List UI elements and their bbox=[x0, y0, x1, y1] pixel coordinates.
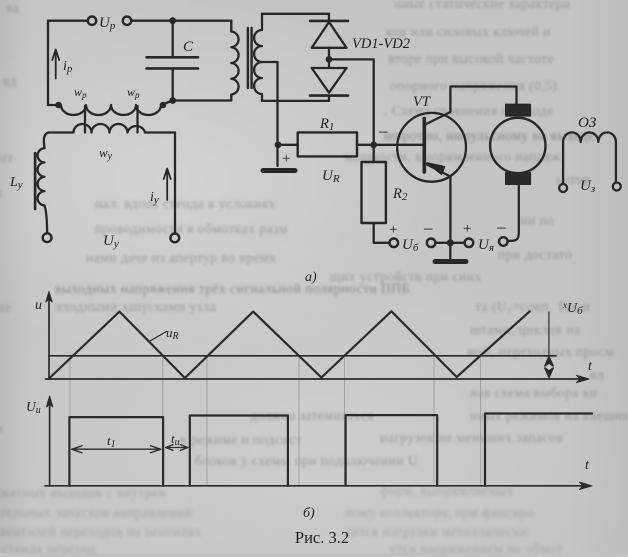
svg-text:VD1-VD2: VD1-VD2 bbox=[352, 36, 410, 52]
svg-text:UR: UR bbox=[322, 168, 340, 185]
transistor VT collector bbox=[424, 87, 450, 126]
svg-text:R1: R1 bbox=[319, 116, 334, 133]
t1 dimension arrows bbox=[72, 446, 161, 453]
svg-text:t1: t1 bbox=[107, 433, 116, 450]
wire Ub minus to center node bbox=[435, 242, 464, 244]
motor brush top bbox=[506, 104, 531, 115]
tu dimension arrows bbox=[166, 445, 188, 451]
field winding O3 bbox=[563, 132, 616, 183]
svg-text:ОЗ: ОЗ bbox=[578, 115, 597, 131]
resistor R1 bbox=[298, 132, 357, 156]
transistor VT base bar bbox=[422, 119, 426, 173]
diode VD1 bbox=[312, 22, 347, 48]
svg-text:Uб: Uб bbox=[402, 237, 419, 254]
transformer secondary winding upper bbox=[254, 14, 262, 62]
terminal circle Ub plus bbox=[390, 239, 399, 248]
svg-text:R2: R2 bbox=[392, 186, 408, 203]
svg-text:+: + bbox=[389, 222, 397, 238]
Ub dimension line bbox=[548, 312, 550, 358]
svg-text:Lу: Lу bbox=[9, 175, 23, 191]
svg-text:iу: iу bbox=[150, 190, 159, 206]
svg-text:u: u bbox=[35, 298, 42, 313]
wire Up right terminal to node bbox=[131, 20, 231, 22]
terminal circle U3 left bbox=[559, 184, 567, 192]
terminal circle Uy right bbox=[170, 234, 179, 243]
faint bleed-through scanned text bbox=[394, 0, 571, 12]
wire top-left horizontal to Up terminal bbox=[48, 20, 88, 22]
signs plus minus bbox=[282, 121, 506, 238]
triangle waveform uR bbox=[49, 311, 530, 378]
node dot bottom capacitor bbox=[169, 97, 176, 104]
svg-text:Uя: Uя bbox=[478, 237, 494, 254]
connector dashed verticals bbox=[70, 357, 481, 484]
diode VD1 cathode bar bbox=[310, 20, 348, 23]
terminal circle Up right bbox=[123, 17, 131, 25]
tap wire wp2 to wy bbox=[136, 106, 138, 133]
wire primary top down bbox=[230, 21, 232, 32]
terminal circle Uya minus bbox=[499, 237, 508, 246]
svg-text:tи: tи bbox=[171, 431, 180, 448]
svg-text:wр: wр bbox=[127, 85, 140, 100]
wire R1 to base node bbox=[357, 144, 423, 146]
pulse waveform Ui bbox=[69, 414, 592, 486]
svg-text:Uз: Uз bbox=[580, 178, 595, 195]
arrow iy bbox=[164, 169, 171, 201]
axis t upper bbox=[46, 378, 585, 380]
svg-text:C: C bbox=[183, 39, 194, 55]
wire primary bottom bbox=[173, 99, 232, 101]
wire secondary top to diodes bbox=[262, 13, 329, 15]
winding wp2 bbox=[111, 101, 173, 116]
wire secondary center tap bbox=[262, 62, 278, 145]
wire right vertical iy branch bbox=[174, 133, 176, 234]
wire down-left to Ly bbox=[44, 133, 49, 149]
resistor R2 bbox=[362, 162, 386, 223]
transformer core bar 1 bbox=[247, 28, 249, 88]
wire left vertical branch bbox=[47, 21, 49, 105]
svg-text:–: – bbox=[378, 121, 388, 140]
wire secondary bottom to diodes bbox=[262, 100, 329, 102]
wire capacitor to bottom node bbox=[172, 70, 174, 101]
axis Ui arrowhead bbox=[46, 396, 52, 407]
terminal circle Ub minus bbox=[427, 239, 436, 248]
Ly core bar bbox=[34, 153, 37, 209]
svg-text:Uр: Uр bbox=[99, 15, 116, 32]
terminal circle Uy left bbox=[43, 233, 52, 242]
svg-text:+: + bbox=[463, 221, 471, 237]
wire R2 bottom to terminal bbox=[374, 223, 390, 243]
node dot base-R2 bbox=[370, 141, 377, 148]
svg-text:wр: wр bbox=[74, 85, 87, 100]
wire VD2 to secondary bottom bbox=[328, 96, 330, 101]
svg-text:а): а) bbox=[305, 270, 317, 285]
wire node to R1 bbox=[278, 144, 298, 146]
svg-text:uR: uR bbox=[166, 325, 179, 342]
polarity dot right bbox=[160, 102, 167, 109]
svg-text:–: – bbox=[496, 217, 506, 236]
wire wy horizontal bbox=[48, 131, 175, 133]
motor brush bottom bbox=[506, 173, 531, 184]
winding wp1 bbox=[48, 105, 111, 115]
axis Ui vertical bbox=[49, 400, 51, 486]
inductor Ly winding bbox=[38, 148, 45, 205]
svg-text:VT: VT bbox=[413, 94, 431, 110]
svg-text:б): б) bbox=[303, 506, 315, 521]
diode VD2 cathode bar bbox=[310, 94, 348, 97]
svg-text:–: – bbox=[423, 218, 433, 237]
transistor VT circle bbox=[397, 113, 466, 182]
transformer primary winding bbox=[231, 32, 238, 101]
motor armature circle bbox=[490, 118, 545, 173]
ground bar center bbox=[435, 259, 466, 264]
uR leader line bbox=[149, 332, 167, 342]
node dot tap-ground bbox=[275, 141, 282, 148]
terminal circle Uya plus bbox=[465, 239, 474, 248]
node dot emitter-ground bbox=[447, 239, 454, 246]
wire tap node to ground bbox=[276, 145, 278, 166]
svg-text:wу: wу bbox=[99, 145, 113, 162]
svg-text:+: + bbox=[282, 151, 290, 167]
terminal circle Up left bbox=[88, 17, 96, 25]
transformer secondary winding lower bbox=[254, 62, 262, 101]
diode VD2 bbox=[312, 68, 347, 93]
wire Ly to bottom terminal bbox=[45, 205, 48, 233]
winding Wy bbox=[74, 124, 146, 133]
axis t lower arrowhead bbox=[580, 482, 593, 489]
axis u vertical bbox=[48, 295, 50, 379]
axis t lower bbox=[45, 485, 587, 487]
svg-text:t: t bbox=[588, 359, 593, 374]
svg-text:t: t bbox=[585, 458, 590, 473]
wire node to ground center bbox=[449, 243, 451, 259]
node dot diode junction bbox=[326, 56, 333, 63]
Ub dimension arrows bbox=[545, 357, 553, 378]
terminal circle U3 right bbox=[613, 183, 621, 191]
transformer core bar 2 bbox=[250, 28, 252, 88]
transistor VT emitter bbox=[425, 164, 450, 243]
wire node to capacitor bbox=[172, 21, 174, 56]
svg-text:xUб: xUб bbox=[562, 300, 583, 317]
svg-text:Uи: Uи bbox=[26, 399, 41, 416]
capacitor C plate top bbox=[147, 56, 199, 59]
arrow ip bbox=[52, 50, 59, 79]
svg-text:iр: iр bbox=[63, 59, 73, 75]
ground bar left bbox=[263, 168, 295, 173]
wire Uya minus to motor bbox=[508, 184, 519, 241]
wire diode top stub bbox=[328, 14, 330, 21]
tap wire wp1 to wy bbox=[84, 106, 86, 133]
node dot top capacitor bbox=[169, 17, 176, 24]
threshold line Ub level bbox=[49, 355, 556, 357]
capacitor C plate bottom bbox=[147, 67, 199, 70]
axis t upper arrowhead bbox=[577, 375, 590, 382]
polarity dot left bbox=[55, 102, 62, 109]
svg-text:Uу: Uу bbox=[103, 233, 119, 250]
wire diode junction to R2 top bbox=[329, 59, 374, 162]
transistor VT emitter arrow bbox=[427, 163, 444, 174]
wire collector rail bbox=[450, 87, 516, 105]
svg-text:Рис. 3.2: Рис. 3.2 bbox=[295, 528, 349, 547]
wire between diodes bbox=[328, 48, 330, 68]
axis u arrowhead bbox=[46, 292, 52, 303]
